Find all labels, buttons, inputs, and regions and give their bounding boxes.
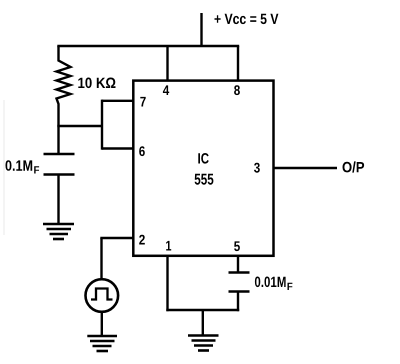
capacitor C2 bottom plate xyxy=(229,290,250,293)
pin 5 xyxy=(234,241,240,251)
ground G1 line1 xyxy=(43,223,74,226)
ground G2 line2 xyxy=(90,340,115,343)
ground G2 line1 xyxy=(87,335,117,338)
value label 10 KΩ xyxy=(78,78,115,89)
ground G3 line1 xyxy=(188,334,219,337)
scan artifact faint line xyxy=(3,100,5,235)
pin 1 xyxy=(166,241,171,251)
wire pin6 stub xyxy=(102,147,133,149)
wire junction to bracket xyxy=(57,125,102,127)
value label IC xyxy=(198,153,208,164)
net label + Vcc = 5 V xyxy=(215,14,279,24)
wire ground stem xyxy=(202,310,204,336)
wire pin4 to rail xyxy=(166,46,168,81)
wire bottom rail xyxy=(166,309,239,311)
wire top rail xyxy=(57,45,239,47)
capacitor C2 top plate xyxy=(229,271,250,274)
wire pin7 stub xyxy=(102,100,133,102)
wire pin3 output xyxy=(274,167,338,169)
value label subscript F2 xyxy=(288,283,293,290)
ground G1 line3 xyxy=(50,233,69,236)
wire pin2 down to source xyxy=(100,238,102,279)
pin 2 xyxy=(139,235,145,245)
value label 0.1M xyxy=(6,160,33,171)
source V1 pulse generator circle xyxy=(86,279,119,312)
pin 8 xyxy=(234,85,240,95)
ground G2 line4 xyxy=(97,350,109,353)
node Vcc stub xyxy=(200,13,202,47)
ground G1 line4 xyxy=(53,238,64,241)
pin 4 xyxy=(163,85,169,95)
wire pin8 to rail xyxy=(237,46,239,81)
wire pin2 stub xyxy=(100,237,133,239)
resistor R1 zigzag xyxy=(57,46,71,126)
source V1 pulse waveform symbol xyxy=(91,289,113,300)
wire pin5 down xyxy=(237,256,239,273)
IC U1 555 body xyxy=(133,81,273,256)
wire junction down to C1 xyxy=(57,126,59,154)
capacitor C1 bottom plate xyxy=(44,173,75,176)
wire C2 to bottom rail xyxy=(237,292,239,312)
value label 555 xyxy=(195,174,214,185)
ground G3 line4 xyxy=(198,349,209,352)
ground G1 line2 xyxy=(47,228,72,231)
value label subscript F xyxy=(34,166,39,173)
wire C1 to ground xyxy=(57,175,59,225)
pin 3 xyxy=(254,163,260,173)
pin 7 xyxy=(140,97,145,107)
value label 0.01M xyxy=(255,277,286,288)
net label O/P xyxy=(343,161,365,172)
wire source to ground xyxy=(101,312,103,336)
ground G3 line3 xyxy=(194,344,213,347)
pin 6 xyxy=(139,146,145,156)
ground G2 line3 xyxy=(93,345,112,348)
capacitor C1 top plate xyxy=(44,153,75,156)
wire bracket vertical xyxy=(101,100,103,150)
wire pin1 down xyxy=(166,256,168,311)
ground G3 line2 xyxy=(192,339,216,342)
